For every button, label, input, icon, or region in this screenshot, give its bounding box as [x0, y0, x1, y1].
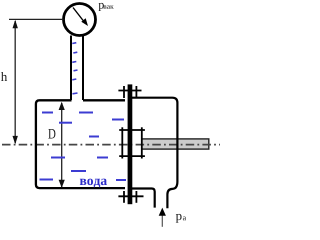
top bolt	[118, 86, 141, 98]
gauge needle	[73, 8, 84, 22]
tank body	[83, 99, 125, 101]
gauge tube right wall	[82, 36, 84, 101]
p_a arrow	[161, 215, 163, 227]
shaft	[142, 139, 209, 149]
water dashes in tank	[40, 113, 127, 181]
label D	[48, 129, 55, 139]
gauge tube left wall	[70, 36, 72, 101]
dimension h line	[14, 21, 16, 143]
cover bottom and outlet pipe left wall	[132, 189, 155, 208]
cover outline	[132, 98, 177, 209]
centerline axis	[2, 144, 220, 146]
cover plate	[128, 84, 133, 204]
dimension D line	[61, 103, 63, 187]
label p_a	[176, 214, 182, 223]
tube water marks	[72, 43, 77, 94]
label voda	[80, 179, 107, 188]
gland frame	[119, 127, 145, 158]
bottom bolt	[118, 191, 143, 203]
label h	[1, 72, 7, 81]
label p_vak	[98, 3, 103, 11]
reference line at gauge level	[9, 18, 64, 20]
vacuum gauge	[64, 4, 96, 36]
